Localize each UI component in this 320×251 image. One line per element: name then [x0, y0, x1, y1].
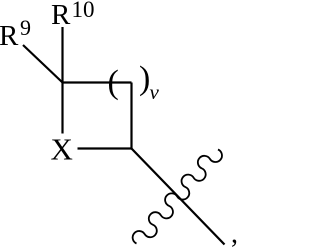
svg-text:9: 9 — [20, 15, 31, 40]
bond from ring to attachment — [132, 149, 225, 245]
svg-text:(: ( — [108, 64, 119, 101]
svg-text:X: X — [51, 132, 73, 167]
wavy attachment bond — [133, 150, 222, 244]
svg-text:R: R — [0, 20, 19, 52]
bond R9 to ring corner — [23, 45, 63, 83]
ring top edge — [63, 81, 132, 83]
ring left edge — [61, 83, 63, 134]
bond R10 to ring corner — [61, 27, 63, 83]
svg-text:,: , — [231, 219, 238, 250]
svg-text:v: v — [150, 80, 160, 104]
ring bottom edge — [78, 147, 132, 149]
svg-text:10: 10 — [72, 0, 95, 22]
ring right edge — [130, 83, 132, 149]
svg-text:R: R — [51, 0, 71, 31]
